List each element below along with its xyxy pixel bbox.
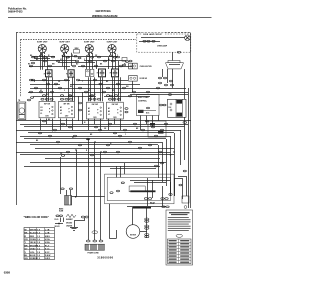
svg-text:SURF UNIT: SURF UNIT (37, 41, 48, 43)
svg-text:OVEN LIGHT SW: OVEN LIGHT SW (140, 66, 153, 68)
svg-text:120V: 120V (93, 117, 97, 119)
surface unit receptacle LR (97, 69, 106, 77)
svg-text:WH: WH (52, 64, 55, 66)
legend connector symbol (55, 215, 63, 221)
svg-text:CLK: CLK (168, 107, 172, 109)
svg-text:GN: GN (25, 258, 29, 260)
svg-text:WHITE: WHITE (30, 229, 38, 231)
svg-text:GY: GY (72, 137, 74, 139)
svg-text:L1: L1 (60, 113, 62, 115)
svg-text:INF SW: INF SW (63, 104, 70, 106)
wire loop inner (107, 177, 170, 200)
junction dot at element (75, 196, 77, 198)
warmer control component between units (74, 48, 82, 59)
svg-text:OVEN LAMP CIRCUIT: OVEN LAMP CIRCUIT (143, 33, 163, 36)
surface unit element RF (circle with spokes) (37, 41, 48, 58)
legend element symbol (61, 214, 77, 222)
svg-text:INF SW: INF SW (92, 104, 99, 106)
svg-text:POWER CORD: POWER CORD (88, 253, 100, 255)
connectors above terminal box (30, 97, 33, 99)
surface unit receptacle RR (110, 69, 119, 77)
oven lamp symbol (185, 35, 191, 41)
svg-text:BU: BU (76, 64, 78, 66)
svg-text:12: 12 (37, 258, 41, 260)
wire nut connectors on upper mesh (29, 56, 135, 97)
svg-text:H1: H1 (40, 107, 42, 109)
connector pair left of clock (159, 104, 162, 106)
connector above element (61, 188, 64, 190)
svg-text:ELEC OVEN: ELEC OVEN (138, 97, 149, 99)
svg-text:BR: BR (106, 81, 109, 83)
svg-text:S: S (117, 112, 119, 114)
svg-text:16: 16 (37, 255, 41, 257)
svg-text:INF SW: INF SW (44, 104, 51, 106)
small component right (182, 196, 189, 203)
svg-text:RED: RED (30, 236, 35, 238)
svg-text:BR: BR (25, 245, 29, 247)
svg-text:SURF UNIT: SURF UNIT (107, 41, 118, 43)
wires to connector cluster (162, 69, 164, 77)
relay contact bar (129, 186, 155, 192)
ground connector (81, 216, 84, 218)
svg-text:GRAY: GRAY (30, 248, 37, 251)
svg-text:H2: H2 (60, 110, 62, 112)
connector cluster right (158, 77, 173, 86)
svg-text:120V: 120V (113, 117, 117, 119)
surface unit receptacle LF (66, 70, 74, 77)
svg-text:ELEM: ELEM (59, 211, 64, 213)
svg-text:18: 18 (37, 252, 41, 254)
svg-text:P: P (117, 109, 119, 111)
svg-text:16: 16 (37, 239, 41, 241)
bake element (hatched box) (65, 190, 72, 205)
right column stubs (174, 170, 187, 199)
cabinet outline top wire (16, 32, 191, 34)
svg-text:SURF UNIT: SURF UNIT (59, 41, 70, 43)
svg-text:120V: 120V (45, 116, 49, 118)
svg-text:L1: L1 (88, 114, 90, 116)
right area wires (133, 63, 185, 99)
svg-text:14: 14 (37, 244, 41, 247)
svg-text:BK: BK (100, 64, 103, 66)
cabinet outline right wire (190, 33, 192, 208)
svg-text:H2: H2 (108, 111, 110, 113)
svg-text:ELEMENT: ELEMENT (66, 219, 73, 221)
svg-text:H1: H1 (108, 108, 110, 110)
infinite switch RF (39, 102, 55, 118)
legend splice symbol (55, 223, 64, 228)
svg-text:BR: BR (90, 134, 93, 136)
wire in lamp box (141, 37, 185, 39)
connector on lamp box bottom edge (177, 51, 180, 53)
maintop dashed outline left (20, 39, 22, 97)
surface unit element LF (circle with spokes) (59, 41, 70, 58)
notes and code table box (166, 210, 193, 265)
svg-text:18: 18 (37, 242, 41, 244)
infinite switch RR (107, 102, 124, 119)
svg-text:ORNG: ORNG (30, 239, 37, 241)
maintop dashed outline top (21, 39, 137, 41)
svg-text:5995447423: 5995447423 (8, 9, 23, 13)
svg-text:P: P (97, 109, 99, 111)
surface unit element RR (circle with spokes) (107, 41, 118, 58)
svg-text:Y: Y (125, 134, 126, 136)
svg-text:S: S (49, 112, 51, 114)
wires lower right (127, 178, 175, 207)
svg-text:WH: WH (126, 86, 129, 88)
svg-text:12: 12 (37, 236, 41, 238)
svg-text:RELAY: RELAY (150, 202, 155, 205)
svg-text:H2: H2 (40, 110, 42, 112)
svg-text:"WIRE COLOR CODE": "WIRE COLOR CODE" (24, 216, 49, 219)
svg-text:S: S (69, 112, 71, 114)
svg-text:R: R (34, 81, 36, 83)
connectors above switches (41, 95, 121, 100)
infinite switch LR (87, 102, 104, 119)
wire mesh upper section (surface unit wiring) (28, 53, 188, 97)
svg-text:H2A: H2A (45, 241, 50, 244)
svg-text:Y: Y (52, 131, 53, 133)
wire loop outer (105, 174, 174, 204)
svg-text:L1: L1 (40, 113, 42, 115)
svg-text:OR: OR (58, 81, 61, 83)
svg-text:H2: H2 (88, 111, 90, 113)
svg-text:YELW: YELW (30, 242, 36, 244)
svg-text:R: R (86, 150, 88, 152)
connectors on bus band (38, 120, 167, 156)
connector pair in lamp box (143, 40, 146, 42)
svg-text:S1C: S1C (45, 249, 50, 251)
small component right of unit RR (122, 58, 132, 66)
svg-text:V: V (84, 59, 85, 61)
svg-text:S2C: S2C (45, 252, 50, 254)
door switch component (129, 76, 148, 82)
connector pair near notes box (162, 206, 165, 208)
svg-text:Y: Y (82, 81, 83, 83)
svg-text:OR: OR (25, 239, 29, 241)
power cord terminal connectors (86, 240, 90, 242)
connector pairs lower right cluster (144, 194, 172, 200)
wires receptacles to switches (47, 77, 121, 101)
svg-text:H1A: H1A (45, 238, 50, 241)
wire bus band (16, 88, 191, 208)
svg-text:P: P (49, 109, 51, 111)
terminal block component (light) (86, 69, 94, 76)
oven thermostat terminal box (left) (18, 100, 26, 119)
svg-text:Y: Y (25, 242, 27, 244)
cabinet outline left wire (16, 33, 18, 205)
svg-text:W: W (84, 122, 86, 124)
svg-text:OVEN LAMP: OVEN LAMP (157, 45, 168, 48)
wire down left (60, 157, 62, 194)
oven light switch component (129, 63, 152, 69)
connector below clock (183, 121, 187, 123)
svg-text:OR: OR (104, 128, 107, 130)
svg-text:H1: H1 (88, 108, 90, 110)
chassis ground symbol (70, 218, 85, 231)
svg-text:P: P (69, 109, 71, 111)
dark splice bar on motor wire (133, 207, 151, 209)
connector on neutral wire (92, 231, 98, 234)
surface unit element LR (circle with spokes) (84, 41, 95, 58)
svg-text:L1B: L1B (45, 229, 50, 231)
svg-text:DOOR SW: DOOR SW (140, 78, 148, 80)
oven lamp circuit label (142, 33, 165, 37)
junction dots on bus (75, 138, 174, 155)
oven control board box (136, 95, 159, 116)
svg-text:BAKE: BAKE (59, 208, 63, 211)
svg-text:L1: L1 (108, 114, 110, 116)
connector pair right of switch RR (125, 108, 128, 110)
wire labels bus band (36, 119, 139, 155)
wire labels upper mesh (28, 55, 129, 96)
svg-text:V: V (64, 90, 65, 92)
svg-text:GRD: GRD (45, 258, 51, 260)
svg-text:14: 14 (37, 232, 41, 235)
svg-text:SPLICE: SPLICE (55, 226, 60, 228)
svg-text:NEU: NEU (45, 236, 50, 238)
svg-text:CHASSIS: CHASSIS (66, 225, 72, 228)
power cord terminal block (hatched) (85, 244, 105, 250)
header rule (8, 17, 212, 19)
svg-text:PLUG: PLUG (55, 219, 59, 221)
svg-text:VIOL: VIOL (30, 252, 36, 254)
svg-text:BK: BK (25, 233, 29, 235)
svg-text:W: W (25, 229, 27, 231)
svg-text:BK: BK (36, 140, 39, 142)
svg-text:MOTOR: MOTOR (130, 234, 137, 236)
power cord wires (89, 139, 101, 241)
connector on left wire (61, 155, 64, 157)
svg-text:SURF UNIT: SURF UNIT (84, 41, 95, 43)
oven lamp circuit dashed box (137, 34, 191, 52)
ground wire to chassis (110, 204, 117, 239)
infinite switch LF (59, 102, 75, 118)
svg-text:PLT: PLT (45, 245, 50, 247)
wire from element right (72, 196, 105, 198)
oven fan motor (circle) (126, 207, 147, 238)
connectors in loop area (110, 162, 164, 193)
svg-text:CONTROL: CONTROL (138, 100, 148, 102)
svg-text:BR: BR (136, 128, 139, 130)
svg-text:318000000: 318000000 (97, 255, 113, 259)
relay board box (148, 121, 166, 137)
svg-text:18: 18 (37, 229, 41, 231)
wire loop horizontals (24, 163, 166, 178)
svg-text:120V: 120V (65, 116, 69, 118)
clock timer assembly (168, 99, 187, 117)
svg-text:INF SW: INF SW (112, 104, 119, 106)
svg-text:BLUE: BLUE (30, 255, 36, 257)
svg-text:S: S (97, 112, 99, 114)
lamp receptacle holder (166, 52, 184, 69)
svg-text:EOC: EOC (146, 113, 150, 115)
svg-text:GEF357CBA: GEF357CBA (96, 9, 111, 13)
connectors on right wires (146, 91, 149, 93)
svg-text:GROUND: GROUND (66, 223, 72, 225)
svg-text:GY: GY (60, 59, 62, 61)
surface unit receptacle RF (44, 70, 52, 77)
wire color code table (24, 228, 55, 261)
svg-text:16: 16 (37, 249, 41, 251)
svg-text:BL: BL (108, 59, 110, 61)
svg-text:0308: 0308 (4, 270, 11, 274)
svg-text:H1: H1 (60, 107, 62, 109)
TOD thermal switch connector stack (145, 207, 149, 238)
svg-text:DSW: DSW (45, 255, 51, 257)
svg-text:L2B: L2B (45, 233, 50, 235)
wires between switch LF and LR (78, 92, 82, 124)
